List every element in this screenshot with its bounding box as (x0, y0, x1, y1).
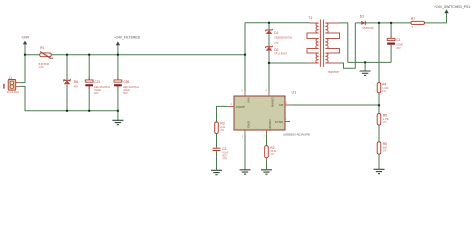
svg-text:R7: R7 (411, 17, 415, 21)
supply +24V_SWITCHED_PS1 (434, 5, 470, 13)
svg-text:50V: 50V (94, 92, 99, 95)
wire C36 column (117, 55, 119, 111)
svg-text:45V: 45V (74, 85, 79, 88)
wire ground tap (364, 62, 366, 71)
wire C1 column (390, 23, 392, 63)
connector J1 (3, 76, 20, 94)
wire top to transformer primary (245, 22, 310, 24)
svg-text:C2: C2 (222, 147, 226, 151)
IC U1 (227, 90, 310, 138)
supply +24V (21, 35, 30, 44)
junction SW node (268, 62, 270, 64)
wire R7 to output (425, 13, 447, 23)
capacitor C2 (213, 147, 229, 161)
wire J1 pin2 to bottom rail (20, 86, 118, 110)
svg-text:50V: 50V (123, 92, 128, 95)
resistor R4 (377, 83, 389, 93)
wire U1 pin to R2 (266, 135, 268, 170)
primary stubs and series links (307, 23, 319, 63)
ground (C2) (211, 170, 222, 174)
junction snubber top (268, 22, 270, 24)
svg-text:C1: C1 (396, 38, 400, 42)
TVS diode D6 (63, 79, 78, 88)
svg-text:D1: D1 (274, 31, 278, 35)
resistor R6 (377, 142, 387, 154)
svg-text:+24V_SWITCHED_PS1: +24V_SWITCHED_PS1 (434, 5, 470, 9)
svg-text:SYNC: SYNC (275, 120, 284, 124)
wire C21 column (88, 55, 90, 111)
ground (R6) (374, 169, 385, 173)
core (320, 20, 323, 67)
junction rail/D6 (66, 54, 68, 56)
svg-text:1SMB5941BT3G: 1SMB5941BT3G (274, 36, 292, 39)
junction rail/supply/J1 (24, 54, 26, 56)
svg-text:COMP: COMP (236, 105, 245, 109)
junction secondary ground tap (364, 61, 366, 63)
wire supply stem (24, 45, 26, 55)
wire secondary bottom staircase to D3 (340, 23, 356, 68)
wire J1 pin1 to rail (20, 55, 25, 83)
svg-text:FB: FB (279, 103, 283, 107)
wire COMP network (217, 106, 228, 170)
svg-text:X7R: X7R (222, 158, 227, 161)
wire VIN vertical (244, 23, 246, 92)
svg-text:D6: D6 (74, 80, 78, 84)
svg-text:R1: R1 (40, 46, 44, 50)
diode D3 (360, 15, 374, 31)
wire top rail +24V_FILTERED net (25, 54, 245, 56)
svg-text:D2: D2 (274, 48, 278, 52)
svg-text:C36: C36 (123, 80, 129, 84)
resistor R3 (215, 122, 226, 134)
capacitor C21 (85, 77, 110, 95)
wire FB to divider (290, 104, 379, 106)
resistor R7 (411, 17, 425, 29)
wire U1 GND to ground (244, 135, 246, 170)
diode D2 (265, 46, 287, 56)
secondary stubs and series links (325, 23, 340, 63)
wire stem to input ground (117, 111, 119, 121)
svg-text:+24V: +24V (21, 35, 30, 39)
junction bottom rail/D6 (66, 110, 68, 112)
svg-text:25V: 25V (396, 47, 401, 50)
svg-text:MURS160: MURS160 (363, 27, 375, 30)
wire snubber chain segments (268, 23, 270, 63)
wire D6 column (66, 55, 68, 111)
primary windings (316, 23, 319, 33)
svg-text:U1: U1 (292, 90, 297, 94)
wire secondary top to ground rail (340, 23, 348, 63)
svg-text:LM2586SX-ADJ/NOPB: LM2586SX-ADJ/NOPB (283, 133, 310, 137)
ground (R2) (261, 170, 272, 174)
svg-text:750815557: 750815557 (328, 71, 341, 74)
svg-text:GND: GND (246, 121, 250, 129)
zener D1 (265, 29, 292, 45)
wire ground rail (348, 61, 391, 63)
wire SW node down to U1 (268, 63, 270, 92)
svg-text:27V: 27V (274, 42, 279, 45)
junction FB/divider node (378, 104, 380, 106)
capacitor C1 (387, 36, 403, 50)
junction bottom rail/C21 (88, 110, 90, 112)
svg-text:DRAIN: DRAIN (270, 98, 274, 108)
transformer T1 (307, 16, 340, 74)
resistor R5 (377, 114, 389, 125)
junction rail/U1 VIN (244, 54, 246, 56)
svg-text:J1: J1 (9, 76, 13, 80)
svg-text:T1: T1 (309, 16, 313, 20)
ground (secondary) (360, 71, 371, 75)
ground (input filter) (112, 120, 123, 124)
junction +24V out/R4 (378, 22, 380, 24)
svg-text:GF1J-E3/67: GF1J-E3/67 (274, 53, 288, 56)
secondary windings (325, 23, 328, 33)
svg-text:22-23-2021: 22-23-2021 (7, 91, 20, 94)
svg-text:1.6A: 1.6A (39, 66, 44, 69)
wire SW node to primary bottom (269, 62, 308, 64)
junction +24V out/C1 (390, 22, 392, 24)
svg-text:C21: C21 (94, 80, 100, 84)
svg-text:+24V_FILTERED: +24V_FILTERED (114, 35, 141, 39)
svg-text:ON/OFF: ON/OFF (268, 120, 272, 132)
junction bottom rail/ground (117, 110, 119, 112)
svg-text:VIN: VIN (246, 98, 250, 103)
junction rail/C21 (88, 54, 90, 56)
svg-text:D3: D3 (360, 15, 364, 19)
wire +24V_FILTERED supply stem (117, 45, 119, 55)
PTC resistor R1 (39, 46, 54, 69)
capacitor C36 (114, 77, 140, 95)
supply +24V_FILTERED (114, 35, 141, 45)
junction rail/C36 +24V_FILTERED node (117, 54, 119, 56)
wire divider column R4 R5 R6 (378, 23, 380, 169)
wire D3 to R7 (355, 22, 411, 24)
resistor R2 (265, 146, 277, 158)
ground (U1 GND) (240, 170, 251, 174)
